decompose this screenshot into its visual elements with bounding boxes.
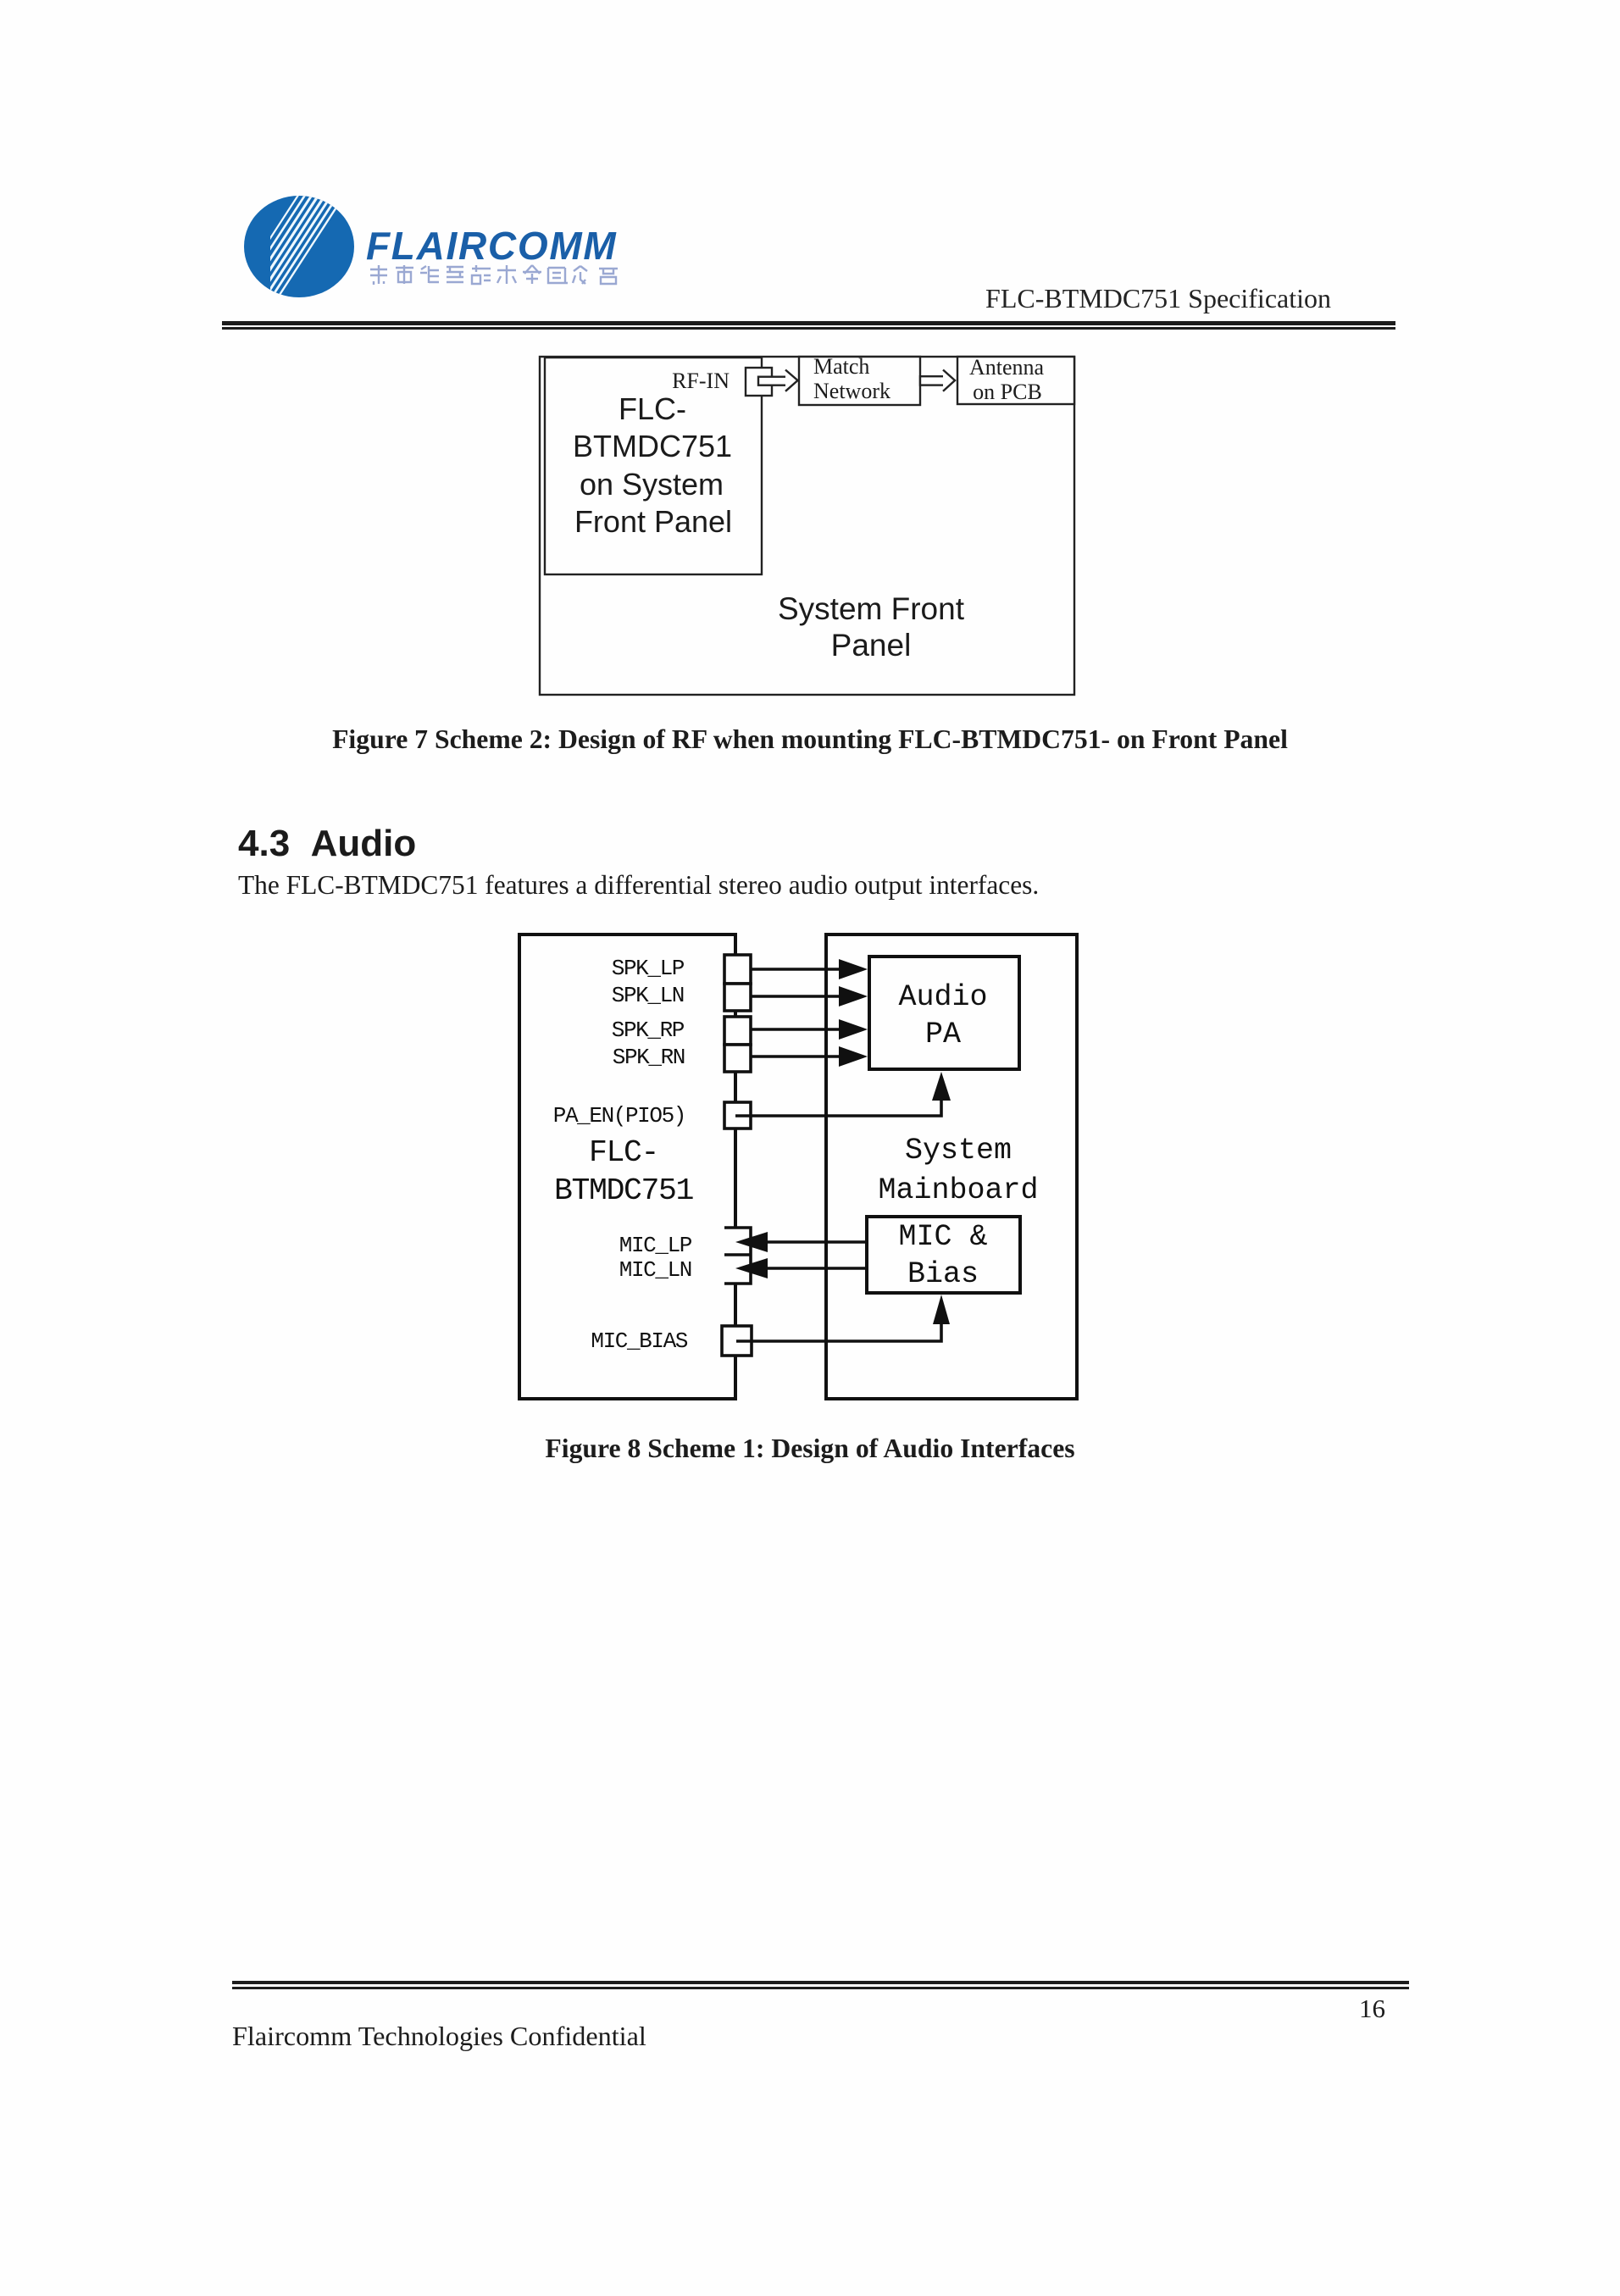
svg-text:SPK_RP: SPK_RP xyxy=(612,1018,685,1043)
svg-text:PA_EN(PIO5): PA_EN(PIO5) xyxy=(553,1103,685,1129)
paragraph xyxy=(238,870,1039,901)
pin MIC_BIAS xyxy=(722,1326,752,1356)
arrowhead MIC_LN left xyxy=(735,1258,768,1278)
arrowhead SPK_LP xyxy=(839,959,868,979)
svg-text:BTMDC751: BTMDC751 xyxy=(573,429,732,463)
footer double rule xyxy=(232,1981,1409,1984)
svg-text:on System: on System xyxy=(580,467,724,502)
svg-text:Audio: Audio xyxy=(898,980,987,1014)
svg-text:SPK_RN: SPK_RN xyxy=(613,1045,685,1070)
pin SPK_RN xyxy=(724,1045,751,1072)
arrowhead MIC_LP left xyxy=(735,1232,768,1252)
box Antenna on PCB xyxy=(957,357,1074,404)
pin PA_EN xyxy=(724,1102,751,1129)
svg-text:FLC-: FLC- xyxy=(589,1135,658,1170)
svg-text:Panel: Panel xyxy=(831,628,912,663)
header doc title xyxy=(906,283,1331,314)
svg-text:System: System xyxy=(905,1134,1012,1167)
svg-text:Match: Match xyxy=(813,354,869,379)
wire MIC_LN xyxy=(763,1267,867,1270)
header double rule xyxy=(222,321,1395,325)
arrowhead PA_EN up xyxy=(932,1072,951,1101)
arrowhead MIC_BIAS up xyxy=(933,1295,950,1324)
box FLC-BTMDC751 on System Front Panel (inner module) xyxy=(545,358,762,574)
arrow RF-IN to Match Network xyxy=(758,377,791,385)
caption Figure 8 xyxy=(0,1434,1620,1464)
logo stripes xyxy=(237,174,345,309)
svg-text:Antenna: Antenna xyxy=(969,355,1045,380)
pin SPK_LN xyxy=(724,984,751,1011)
pin SPK_LP xyxy=(724,955,751,984)
module box FLC-BTMDC751 xyxy=(519,934,735,1399)
svg-text:RF-IN: RF-IN xyxy=(672,369,730,393)
label System Front Panel xyxy=(778,591,965,663)
svg-text:BTMDC751: BTMDC751 xyxy=(554,1173,694,1208)
svg-text:PA: PA xyxy=(925,1018,961,1051)
svg-text:SPK_LP: SPK_LP xyxy=(612,956,685,981)
heading 4.3 Audio xyxy=(238,823,416,865)
box System Mainboard xyxy=(826,934,1077,1399)
svg-text:MIC_LN: MIC_LN xyxy=(619,1257,691,1283)
wire MIC_BIAS xyxy=(736,1323,941,1341)
wire PA_EN xyxy=(735,1098,941,1116)
pin MIC_LP / MIC_LN (open left) xyxy=(724,1228,751,1284)
caption Figure 7 xyxy=(0,724,1620,755)
arrowhead SPK_LN xyxy=(839,986,868,1007)
wire SPK_RP xyxy=(751,1028,843,1031)
arrow Match Network to Antenna on PCB xyxy=(920,376,948,385)
box System Front Panel (outer) xyxy=(540,357,1074,695)
svg-text:MIC_LP: MIC_LP xyxy=(619,1233,692,1258)
svg-text:Bias: Bias xyxy=(907,1257,979,1291)
svg-text:on PCB: on PCB xyxy=(973,380,1042,404)
logo Flaircomm xyxy=(229,182,652,309)
box MIC &amp; Bias xyxy=(867,1217,1020,1293)
svg-text:Network: Network xyxy=(813,379,890,403)
footer text xyxy=(232,2021,646,2052)
box Match Network xyxy=(799,357,920,405)
wire MIC_LP xyxy=(763,1240,867,1244)
arrowhead SPK_RN xyxy=(839,1046,868,1067)
logo chinese subline (glyph placeholders) xyxy=(370,265,618,285)
page number xyxy=(1216,1994,1385,2024)
label module FLC-BTMDC751 on System Front Panel xyxy=(573,391,732,539)
arrowhead SPK_RP xyxy=(839,1019,868,1040)
svg-text:MIC &: MIC & xyxy=(898,1220,987,1254)
box Audio PA xyxy=(869,957,1019,1069)
svg-text:FLAIRCOMM: FLAIRCOMM xyxy=(366,224,617,268)
svg-text:Mainboard: Mainboard xyxy=(878,1173,1038,1207)
svg-text:System Front: System Front xyxy=(778,591,965,626)
wire SPK_LP xyxy=(751,968,843,971)
wire SPK_RN xyxy=(751,1055,843,1058)
wire SPK_LN xyxy=(751,995,843,998)
pin RF-IN xyxy=(746,368,772,396)
svg-text:FLC-: FLC- xyxy=(619,391,686,426)
svg-text:SPK_LN: SPK_LN xyxy=(612,983,684,1008)
svg-text:MIC_BIAS: MIC_BIAS xyxy=(591,1328,687,1354)
pin SPK_RP xyxy=(724,1017,751,1045)
svg-text:Front Panel: Front Panel xyxy=(574,504,732,539)
